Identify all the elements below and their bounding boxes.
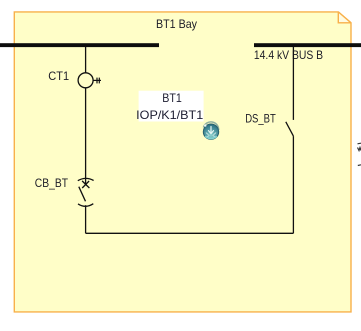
wire: DS_BT to bottom corner (292, 136, 294, 233)
circuit breaker CB_BT: top contact arc (78, 178, 94, 180)
CT1 stub tick 1 (96, 78, 98, 84)
wire: CB_BT to bottom corner (85, 205, 87, 233)
svg-text:BT1 Bay: BT1 Bay (156, 17, 197, 31)
svg-text:IOP/K1/BT1: IOP/K1/BT1 (136, 108, 203, 122)
svg-text:BT1: BT1 (162, 91, 182, 105)
circuit breaker CB_BT: X contact stroke 2 (82, 181, 89, 188)
busbar 14.4 kV BUS B (right) (254, 43, 361, 47)
IED label box (139, 91, 204, 122)
wire: left bus to CT1 (85, 47, 87, 73)
circuit breaker CB_BT: X contact stroke 1 (82, 181, 89, 188)
wire: CT1 to CB_BT (85, 88, 87, 185)
svg-text:DS_BT: DS_BT (245, 112, 276, 126)
disconnector DS_BT: blade (286, 122, 294, 136)
CT1 secondary stub (93, 79, 101, 81)
svg-text:CB_BT: CB_BT (35, 176, 69, 190)
svg-text:CT1: CT1 (48, 69, 69, 83)
IED globe icon (203, 122, 218, 140)
wire: right bus to DS_BT (292, 47, 294, 120)
busbar BUS A (left) (0, 43, 159, 47)
circuit breaker CB_BT: blade (79, 187, 86, 202)
svg-text:14.4 kV BUS B: 14.4 kV BUS B (254, 48, 323, 62)
current transformer CT1 (circle) (78, 73, 93, 88)
folded corner flap (338, 12, 351, 23)
wire: bottom horizontal (86, 232, 294, 234)
circuit breaker CB_BT: bottom contact arc (78, 204, 93, 207)
right edge cut-off glyphs (358, 142, 361, 145)
CT1 stub tick 2 (98, 78, 100, 84)
